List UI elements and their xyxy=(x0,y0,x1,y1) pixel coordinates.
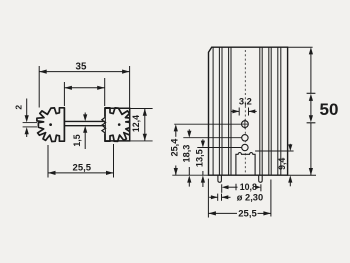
body outline with chamfer xyxy=(209,47,288,175)
hole height extension line 18,3 xyxy=(183,137,244,139)
dimension dia 2,30 xyxy=(209,196,217,198)
dimension 35 line xyxy=(39,71,129,73)
dimension 50 line upper xyxy=(309,47,313,54)
hole B xyxy=(242,144,248,150)
dimension 10,8 line and arrows xyxy=(222,185,229,189)
dimension 10,8 ticks xyxy=(221,184,223,193)
right finned cluster (mirrored star, clipped to block) xyxy=(105,108,133,142)
dimension 9,4 xyxy=(289,144,291,145)
bottom edge extension left xyxy=(172,174,208,176)
dimension 12,4 arrows xyxy=(143,109,147,116)
dimension 50 line lower xyxy=(310,123,312,175)
dimension 3,2 ticks xyxy=(238,108,240,116)
dimension 50 bottom extension xyxy=(288,174,316,176)
svg-text:25,4: 25,4 xyxy=(169,138,179,157)
svg-text:25,5: 25,5 xyxy=(238,208,257,219)
dimension 35 arrow left xyxy=(39,70,47,74)
svg-text:25,5: 25,5 xyxy=(73,163,92,174)
svg-text:18,3: 18,3 xyxy=(182,145,192,163)
svg-text:13,5: 13,5 xyxy=(194,149,204,167)
dimension 50 break tick lower xyxy=(307,122,316,124)
dimension 3,2 arrows xyxy=(231,110,239,112)
dimension 2 extension lines xyxy=(23,122,37,124)
dimension 12,4 line xyxy=(144,109,146,141)
svg-text:9,4: 9,4 xyxy=(277,158,287,170)
dimension 35 arrow right xyxy=(122,70,130,74)
right cluster channel-side fin tips xyxy=(102,118,106,133)
dimension 2 line and arrows xyxy=(26,99,28,116)
hole height extension line 13,5 xyxy=(197,147,244,149)
inner channel dimension line xyxy=(64,87,104,89)
hole A xyxy=(242,135,248,141)
dimension 50 break tick upper xyxy=(307,92,316,94)
left cluster center dot xyxy=(49,123,52,126)
pin right xyxy=(259,175,263,182)
pin left xyxy=(218,175,222,182)
left finned cluster (star profile) xyxy=(37,108,65,142)
inner channel dimension extension right xyxy=(104,78,106,106)
svg-text:12,4: 12,4 xyxy=(131,115,141,132)
dimension 25,5 front extension lines xyxy=(207,179,209,218)
dimension 35 extension line right xyxy=(129,66,131,108)
dimension 13,5 xyxy=(202,139,204,141)
dimension 35 extension line left xyxy=(38,66,40,108)
svg-text:3,2: 3,2 xyxy=(239,96,252,106)
bottom cutout xyxy=(236,153,255,176)
right cluster block edges xyxy=(105,108,130,141)
svg-text:1,5: 1,5 xyxy=(72,134,82,146)
dimension 25,5 left-view extension lines xyxy=(47,145,49,178)
svg-text:2: 2 xyxy=(14,105,24,110)
svg-text:10,8: 10,8 xyxy=(240,182,257,192)
svg-text:ø 2,30: ø 2,30 xyxy=(237,193,263,203)
shoulder line 9,4 xyxy=(255,150,294,152)
dimension 12,4 extension lines xyxy=(131,108,153,110)
inner channel dimension arrow left xyxy=(64,86,72,90)
dimension 18,3 xyxy=(188,129,190,131)
dimension 1,5 line and arrows xyxy=(84,113,86,115)
hole height extension line 25,4 xyxy=(174,123,244,125)
mounting hole 3,2 xyxy=(242,121,249,128)
center line (dash-dot) xyxy=(244,50,246,175)
dimension 25,5 left-view arrows xyxy=(48,171,56,175)
fin groove lines right xyxy=(260,47,281,175)
right cluster center dot xyxy=(118,123,121,126)
inner channel dimension extension left xyxy=(63,82,65,106)
dimension 25,5 front line and arrows xyxy=(208,211,216,215)
dimension 50 top extension xyxy=(288,46,313,48)
svg-text:50: 50 xyxy=(320,100,339,119)
web top line xyxy=(64,120,105,122)
dimension 50 mid arrows xyxy=(309,94,313,101)
web bottom line xyxy=(64,125,105,127)
svg-text:35: 35 xyxy=(76,62,87,73)
dimension 25,4 xyxy=(174,124,178,131)
inner channel dimension arrow right xyxy=(97,86,105,90)
fin groove lines left xyxy=(213,47,231,175)
dimension 25,5 left-view line xyxy=(48,172,114,174)
